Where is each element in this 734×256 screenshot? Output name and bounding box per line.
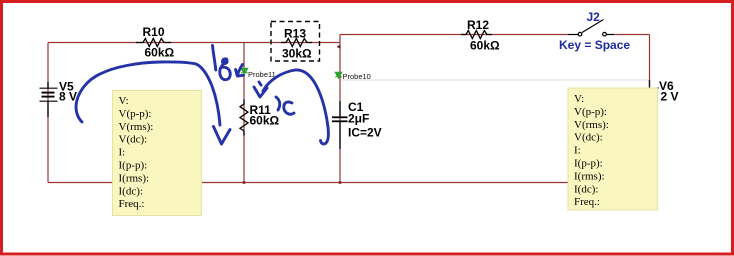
- svg-text:I(p-p):: I(p-p):: [574, 158, 603, 170]
- svg-text:I(dc):: I(dc):: [119, 185, 143, 197]
- svg-text:30kΩ: 30kΩ: [282, 47, 312, 61]
- svg-text:I:: I:: [119, 147, 126, 159]
- svg-text:V(rms):: V(rms):: [574, 119, 609, 131]
- svg-text:2 V: 2 V: [661, 90, 679, 104]
- svg-text:I(p-p):: I(p-p):: [119, 160, 148, 172]
- svg-text:Freq.:: Freq.:: [119, 198, 145, 210]
- svg-text:I(dc):: I(dc):: [574, 183, 598, 195]
- svg-text:Key = Space: Key = Space: [559, 38, 630, 52]
- svg-text:IC=2V: IC=2V: [348, 126, 382, 140]
- svg-text:V:: V:: [574, 93, 584, 105]
- svg-text:60kΩ: 60kΩ: [250, 114, 280, 128]
- svg-text:8 V: 8 V: [59, 90, 77, 104]
- svg-text:I:: I:: [574, 145, 581, 157]
- svg-text:V(p-p):: V(p-p):: [574, 106, 607, 118]
- svg-text:V:: V:: [119, 95, 129, 107]
- svg-text:R12: R12: [467, 18, 489, 32]
- svg-text:Freq.:: Freq.:: [574, 196, 600, 208]
- svg-text:60kΩ: 60kΩ: [470, 39, 500, 53]
- svg-text:V(dc):: V(dc):: [119, 134, 148, 146]
- svg-text:V(p-p):: V(p-p):: [119, 108, 152, 120]
- svg-text:V(dc):: V(dc):: [574, 132, 603, 144]
- svg-text:R13: R13: [284, 26, 306, 40]
- svg-text:J2: J2: [587, 10, 601, 24]
- svg-text:R10: R10: [143, 25, 165, 39]
- svg-text:I(rms):: I(rms):: [574, 170, 605, 182]
- svg-text:2μF: 2μF: [348, 112, 369, 126]
- svg-text:V(rms):: V(rms):: [119, 121, 154, 133]
- svg-text:Probe10: Probe10: [343, 72, 371, 81]
- svg-text:Probe11: Probe11: [248, 70, 276, 79]
- svg-text:I(rms):: I(rms):: [119, 172, 150, 184]
- svg-text:60kΩ: 60kΩ: [145, 46, 175, 60]
